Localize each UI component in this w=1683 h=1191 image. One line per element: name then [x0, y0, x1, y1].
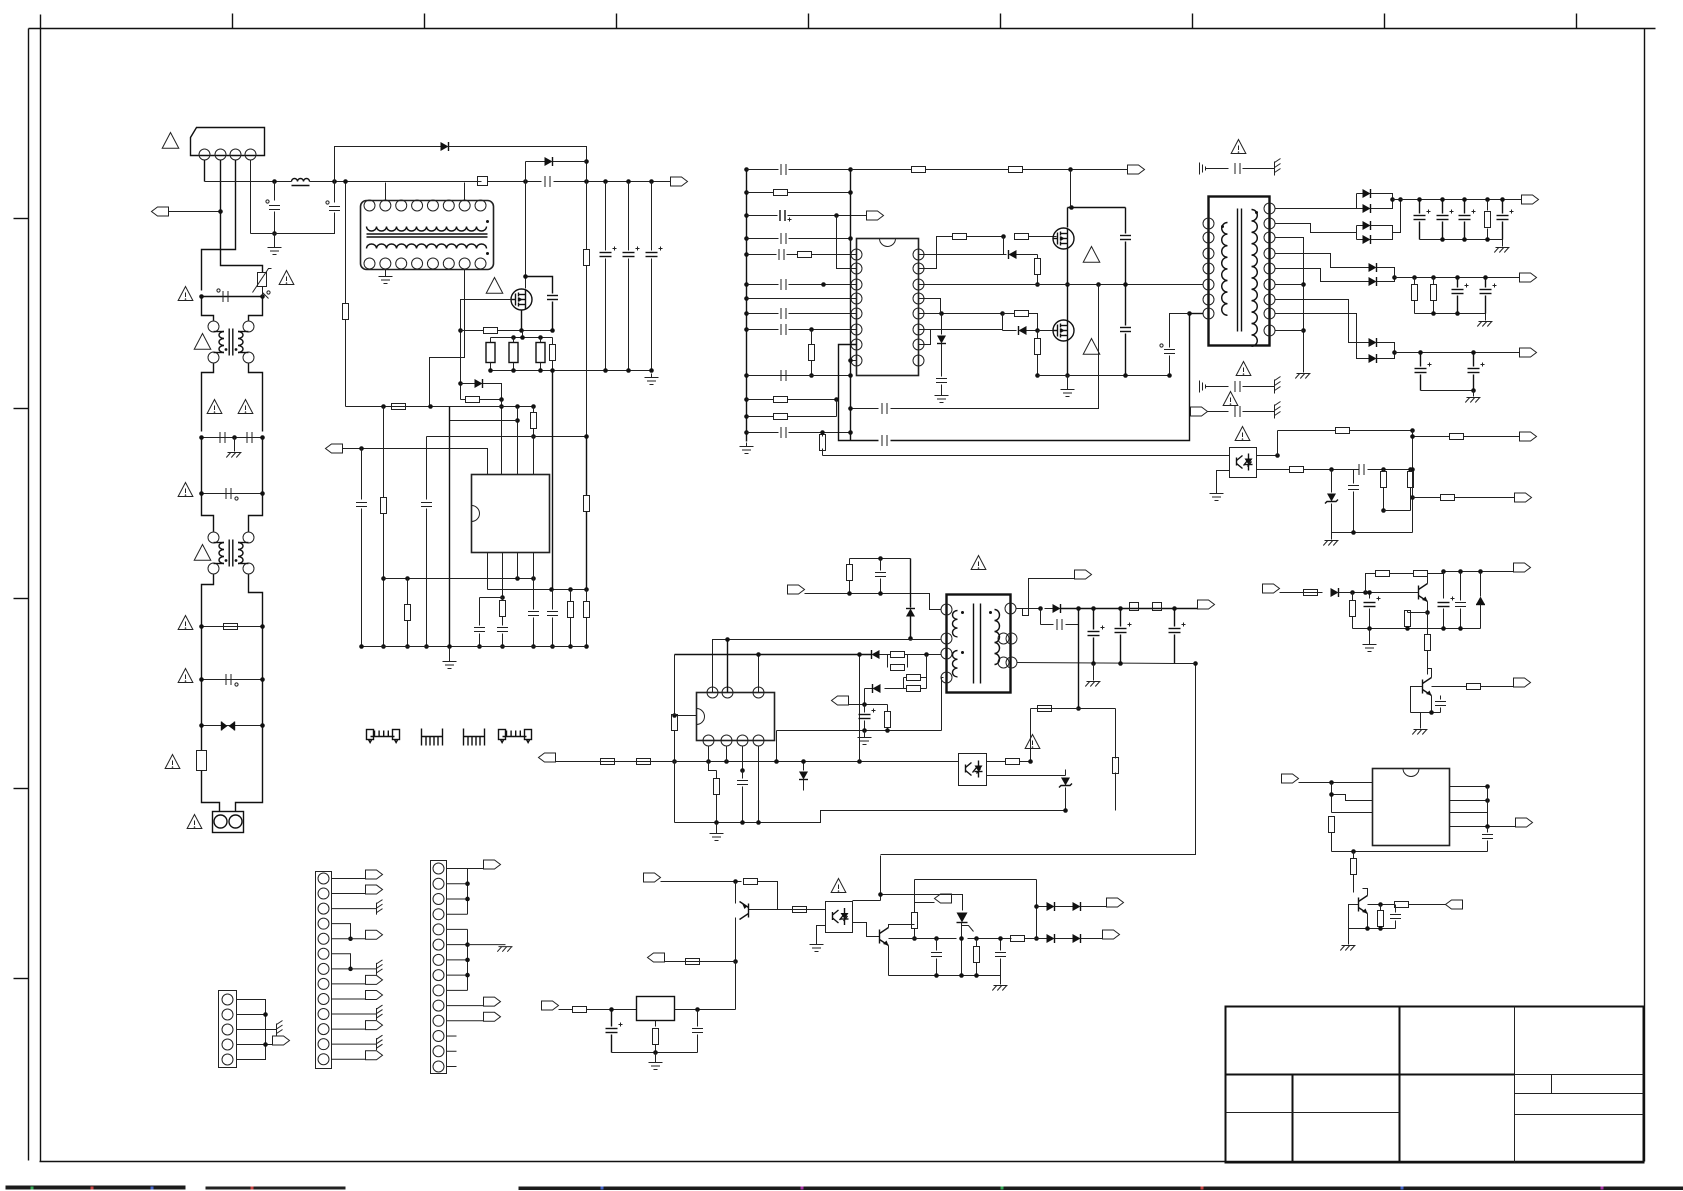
connector P1 (AC input) — [191, 128, 265, 156]
wire — [1217, 471, 1230, 490]
wire — [1067, 341, 1069, 376]
capacitor (electrolytic) — [1468, 368, 1480, 370]
frame ruler tick (left) — [14, 788, 29, 790]
resistor — [1431, 285, 1437, 301]
resistor — [500, 601, 506, 617]
wire — [1487, 787, 1489, 827]
junction — [531, 644, 536, 649]
wire — [716, 795, 718, 823]
wire — [976, 939, 978, 947]
wire — [1393, 199, 1522, 201]
junction — [1038, 606, 1043, 611]
wire — [887, 655, 889, 668]
resistor — [974, 947, 980, 963]
resistor — [1412, 285, 1418, 301]
pin — [433, 924, 444, 935]
wire — [1357, 208, 1363, 210]
connector CN2 (13-pin) — [316, 872, 332, 1069]
wire — [880, 654, 891, 656]
wire — [332, 1043, 377, 1045]
junction — [934, 936, 939, 941]
wire — [1243, 168, 1275, 170]
junction — [1193, 661, 1198, 666]
resistor — [1376, 571, 1390, 577]
wire — [803, 762, 805, 771]
capacitor — [1455, 602, 1466, 604]
pin — [433, 1031, 444, 1042]
junction — [520, 335, 525, 340]
warning symbol — [1223, 392, 1238, 406]
wire — [817, 926, 826, 941]
wire — [1485, 278, 1487, 288]
wire — [1395, 352, 1520, 354]
safety mark — [326, 201, 329, 204]
diode D2 — [545, 157, 553, 166]
wire — [586, 182, 588, 250]
junction — [1000, 311, 1005, 316]
wire — [502, 617, 504, 626]
pin — [459, 200, 470, 211]
junction — [756, 820, 761, 825]
chassis ground — [1274, 405, 1276, 419]
net connector +5V — [1520, 348, 1537, 357]
pin — [318, 1024, 329, 1035]
junction — [1441, 626, 1446, 631]
frame ruler tick (top) — [1384, 14, 1386, 29]
wire — [628, 259, 630, 371]
wire — [1068, 207, 1126, 209]
resistor — [1450, 434, 1464, 440]
wire — [881, 895, 963, 911]
junction — [584, 179, 589, 184]
capacitor — [474, 627, 485, 629]
pin — [396, 200, 407, 211]
wire — [1369, 593, 1371, 599]
junction — [1034, 936, 1039, 941]
wire — [747, 298, 857, 300]
capacitor — [780, 427, 782, 438]
wire — [1081, 938, 1103, 940]
right pin — [1005, 603, 1016, 614]
wire — [237, 1000, 266, 1060]
mosfet Q2 — [1053, 228, 1074, 249]
junction — [1483, 275, 1488, 280]
resistor — [907, 675, 921, 681]
wire — [789, 432, 851, 434]
pin — [380, 258, 391, 269]
junction — [519, 328, 524, 333]
wire — [1038, 375, 1170, 377]
pin — [722, 687, 733, 698]
diode — [799, 772, 808, 780]
wire — [586, 266, 588, 437]
net connector +5VSB — [1075, 570, 1092, 579]
wire — [1017, 579, 1075, 616]
resistor — [891, 652, 905, 658]
resistor — [405, 605, 411, 621]
pin — [851, 249, 862, 260]
junction — [465, 897, 470, 902]
net connector — [1515, 493, 1532, 502]
wire — [853, 900, 881, 902]
junction — [549, 587, 554, 592]
resistor — [550, 345, 556, 361]
diode — [1363, 235, 1371, 244]
wire — [521, 310, 523, 331]
pin — [475, 200, 486, 211]
junction — [744, 311, 749, 316]
wire — [1487, 827, 1489, 833]
chassis ground — [228, 452, 242, 454]
capacitor — [528, 611, 539, 613]
wire — [1442, 222, 1444, 240]
wire — [447, 989, 468, 991]
junction — [1485, 784, 1490, 789]
junction — [974, 936, 979, 941]
net connector — [648, 953, 665, 962]
pin — [913, 293, 924, 304]
capacitor — [780, 308, 782, 319]
pin — [851, 293, 862, 304]
junction — [199, 723, 204, 728]
wire — [605, 259, 607, 371]
right pin — [1264, 218, 1275, 229]
wire — [788, 416, 837, 418]
resistor — [1441, 495, 1455, 501]
wire — [1275, 208, 1357, 210]
capacitor (electrolytic) — [779, 210, 781, 221]
wire — [1369, 629, 1371, 641]
wire — [1350, 430, 1413, 432]
wire — [533, 618, 535, 647]
ground — [385, 273, 387, 277]
chassis ground — [1496, 247, 1510, 249]
wire — [1003, 330, 1017, 332]
chassis ground — [1274, 162, 1276, 176]
right pin — [998, 633, 1009, 644]
junction — [821, 282, 826, 287]
junction — [848, 190, 853, 195]
wire — [747, 313, 779, 315]
pin — [364, 258, 375, 269]
resistor — [672, 715, 678, 731]
wire — [1045, 608, 1053, 610]
wire — [1363, 889, 1368, 896]
wire — [570, 590, 572, 602]
wire — [921, 677, 927, 679]
wire — [332, 908, 377, 910]
wire — [202, 725, 263, 727]
net connector — [366, 1051, 383, 1060]
wire — [1078, 609, 1080, 709]
resistor — [1408, 472, 1414, 488]
connector (AC inlet) — [213, 812, 244, 833]
capacitor — [780, 164, 782, 175]
wire — [1066, 609, 1079, 625]
net connector — [1446, 900, 1463, 909]
wire — [1332, 851, 1488, 853]
net connector — [484, 1012, 501, 1021]
wire — [919, 329, 1003, 331]
wire — [526, 277, 553, 294]
junction — [848, 236, 853, 241]
wire — [204, 160, 206, 182]
zener diode (TL431) — [1327, 494, 1336, 502]
junction — [218, 209, 223, 214]
junction — [260, 723, 265, 728]
wire — [488, 589, 587, 591]
wire — [586, 437, 588, 496]
net connector — [1191, 407, 1208, 416]
frame ruler tick (left) — [14, 408, 29, 410]
pin — [851, 308, 862, 319]
title block divider — [1515, 1093, 1644, 1095]
wire — [674, 655, 676, 715]
ground (small) — [1199, 381, 1201, 393]
net connector — [1103, 930, 1120, 939]
title block divider — [1292, 1075, 1294, 1163]
wire — [976, 963, 978, 976]
secondary winding — [1252, 210, 1258, 347]
wire — [1433, 301, 1435, 314]
title block outer box — [1226, 1007, 1644, 1163]
pin — [753, 687, 764, 698]
wire — [749, 909, 826, 911]
resistor — [1038, 706, 1052, 712]
net connector — [484, 860, 501, 869]
wire — [237, 1044, 273, 1046]
transistor Q8 — [1422, 680, 1424, 694]
wire — [464, 183, 466, 201]
junction — [500, 644, 505, 649]
wire — [1420, 713, 1422, 729]
wire — [1280, 592, 1304, 594]
wire — [655, 1021, 657, 1027]
winding (top) — [367, 227, 487, 232]
diode D1 — [441, 142, 449, 151]
junction — [809, 327, 814, 332]
warning symbol — [1231, 140, 1246, 154]
core — [1237, 209, 1239, 332]
thermistor RT1 — [258, 273, 267, 287]
junction — [626, 368, 631, 373]
diode (clamp) — [906, 609, 915, 617]
pin — [427, 200, 438, 211]
wire — [735, 962, 737, 1010]
left pin — [941, 672, 952, 683]
wire — [885, 688, 907, 690]
capacitor — [780, 233, 782, 244]
chassis ground — [1467, 397, 1481, 399]
wire — [864, 731, 866, 734]
wire — [1407, 627, 1409, 629]
junction — [1471, 388, 1476, 393]
wire — [332, 878, 366, 880]
junction — [1429, 710, 1434, 715]
resistor — [774, 190, 788, 196]
wire — [850, 558, 911, 560]
resistor — [1351, 859, 1357, 875]
net connector — [366, 870, 383, 879]
wire — [1280, 592, 1323, 594]
junction — [538, 335, 543, 340]
inductor L1 — [292, 179, 310, 182]
capacitor (electrolytic) — [1437, 215, 1449, 217]
junction — [538, 368, 543, 373]
junction — [263, 1012, 268, 1017]
wire — [1413, 497, 1441, 499]
wire — [1410, 488, 1412, 511]
capacitor — [737, 780, 748, 782]
wire — [1357, 193, 1363, 195]
pin — [913, 308, 924, 319]
pin — [396, 258, 407, 269]
junction — [848, 167, 853, 172]
resistor — [1485, 212, 1491, 228]
wire — [526, 161, 545, 163]
junction — [523, 274, 528, 279]
junction — [848, 373, 853, 378]
wire — [742, 771, 744, 779]
capacitor (electrolytic) — [600, 252, 612, 254]
wire — [332, 998, 366, 1000]
capacitor — [547, 611, 558, 613]
wire — [332, 893, 366, 895]
wire — [777, 730, 942, 732]
wire — [1079, 608, 1198, 610]
warning symbol — [1235, 427, 1250, 441]
wire — [1275, 254, 1369, 268]
voltage regulator U7 — [637, 997, 675, 1021]
wire — [1414, 301, 1416, 314]
wire — [447, 1020, 484, 1022]
wire — [1352, 617, 1354, 629]
junction — [733, 879, 738, 884]
junction — [878, 556, 883, 561]
wire — [202, 296, 263, 298]
wire — [851, 169, 912, 171]
wire — [385, 269, 387, 273]
wire — [880, 856, 882, 901]
junction — [672, 759, 677, 764]
wire — [822, 449, 824, 456]
wire — [697, 1010, 699, 1027]
thyristor — [957, 913, 968, 923]
junction — [1329, 467, 1334, 472]
wire — [1411, 687, 1423, 701]
wire — [1190, 313, 1204, 315]
pin — [222, 1039, 233, 1050]
wire — [1169, 356, 1171, 376]
net connector — [273, 1036, 290, 1045]
capacitor — [1120, 327, 1131, 329]
net connector — [935, 894, 952, 903]
wire — [1352, 593, 1354, 601]
pin — [412, 258, 423, 269]
junction — [1381, 508, 1386, 513]
warning symbol — [178, 483, 193, 497]
resistor — [891, 665, 905, 671]
wire — [915, 879, 1037, 881]
wire — [1383, 470, 1385, 472]
wire — [1502, 200, 1504, 214]
optocoupler U5 — [959, 754, 987, 786]
wire — [540, 338, 542, 343]
junction — [744, 236, 749, 241]
wire — [1275, 238, 1304, 373]
spark gap — [371, 736, 395, 738]
wire — [1029, 314, 1038, 331]
mosfet Q3 — [1053, 320, 1074, 341]
junction — [531, 404, 536, 409]
capacitor (electrolytic) — [646, 252, 658, 254]
wire — [1460, 572, 1462, 601]
resistor — [1011, 936, 1025, 942]
wire — [747, 254, 777, 256]
junction — [1301, 282, 1306, 287]
common-mode choke LF2 — [208, 532, 219, 543]
wire — [483, 384, 502, 400]
wire — [697, 1035, 699, 1053]
wire — [716, 771, 718, 779]
wire — [1331, 504, 1333, 533]
wire — [891, 314, 1190, 441]
net connector — [1107, 898, 1124, 907]
pin — [318, 1054, 329, 1065]
chassis ground — [499, 946, 513, 948]
wire — [552, 590, 554, 610]
junction — [1410, 428, 1415, 433]
junction — [332, 179, 337, 184]
warning symbol — [971, 556, 986, 570]
wire — [921, 688, 927, 690]
resistor — [392, 404, 406, 410]
wire — [1444, 571, 1514, 573]
safety mark — [267, 291, 270, 294]
wire — [449, 147, 587, 182]
wire — [525, 182, 527, 289]
junction — [405, 576, 410, 581]
wire — [1349, 905, 1359, 917]
pin — [913, 324, 924, 335]
title block divider — [1399, 1007, 1401, 1163]
capacitor (series) — [544, 176, 546, 187]
diode — [1369, 354, 1377, 363]
resistor — [1350, 601, 1356, 617]
wire — [586, 618, 588, 647]
junction — [1478, 569, 1483, 574]
wire — [788, 215, 867, 217]
wire — [747, 432, 779, 434]
junction — [744, 252, 749, 257]
fuse/jumper in bus — [478, 177, 488, 186]
ground — [941, 392, 943, 396]
capacitor (electrolytic) — [1088, 631, 1100, 633]
wire — [837, 216, 857, 269]
diode — [1369, 263, 1377, 272]
diode — [1073, 902, 1081, 911]
resistor (shunt) — [536, 343, 545, 363]
pin — [214, 815, 227, 828]
pin — [851, 355, 862, 366]
junction — [934, 973, 939, 978]
net connector — [788, 585, 805, 594]
resistor — [714, 779, 720, 795]
junction — [1390, 197, 1395, 202]
wire — [1457, 278, 1459, 288]
wire — [274, 182, 276, 201]
wire — [708, 747, 710, 762]
